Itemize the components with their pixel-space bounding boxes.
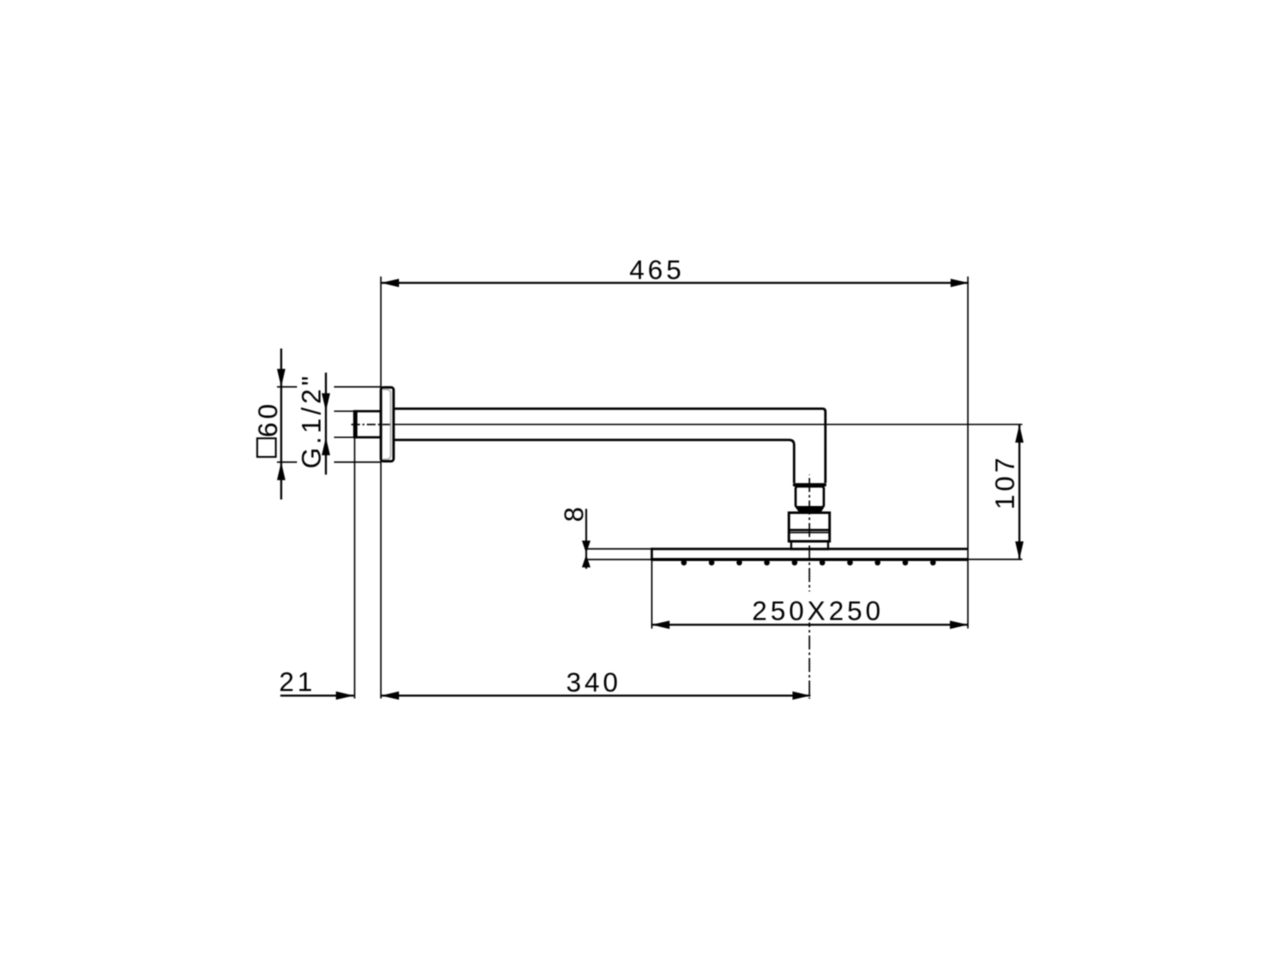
dimension 465 arrows (381, 279, 399, 287)
housing groove lines (789, 529, 830, 531)
elbow collar band (793, 483, 827, 486)
G.1/2 bottom extension line (323, 436, 354, 438)
dimension 250X250 line (652, 624, 968, 626)
svg-text:465: 465 (629, 255, 684, 285)
wall face extension line (380, 277, 382, 699)
flange highlight (383, 390, 391, 460)
shower arm outline (394, 409, 826, 483)
svg-text:G.1/2": G.1/2" (297, 373, 327, 469)
nipple thread end bar (353, 410, 357, 438)
dimension 340 line (381, 695, 811, 697)
nozzle dots (681, 560, 936, 566)
nut skirt cone (797, 507, 824, 513)
threaded nipple (355, 411, 381, 437)
arm centerline solid / 107 top extension (394, 423, 1023, 425)
arm centerline dash-dot (351, 424, 393, 426)
plate thickness extension lines (8 dim) (586, 548, 651, 550)
head vertical centerline dash-dot (808, 475, 810, 699)
sq60 top extension line (277, 386, 381, 388)
label mask G.1/2 (297, 372, 334, 469)
swivel nut (796, 487, 824, 508)
wall flange (381, 387, 394, 461)
dimension 8 line (585, 509, 587, 569)
dimension 21 line (280, 695, 354, 697)
svg-text:21: 21 (279, 667, 316, 697)
head plate (652, 549, 968, 560)
250X250 left extension line (651, 561, 653, 629)
dimension G.1/2 line (325, 373, 327, 475)
nipple-edge extension line (354, 438, 356, 699)
dimension 107 line (1018, 425, 1020, 560)
G.1/2 top extension line (323, 410, 354, 412)
dimension 465 line (381, 282, 969, 284)
dimension sq60 line (280, 349, 282, 500)
svg-text:8: 8 (559, 504, 589, 522)
107 bottom extension line (968, 558, 1022, 560)
sq60 bottom extension line (277, 461, 381, 463)
svg-text:250X250: 250X250 (752, 596, 884, 626)
label 250X250 (751, 592, 883, 623)
right extension line (head edge) (967, 277, 969, 629)
label sq60 square (257, 438, 276, 457)
lower collar (791, 541, 828, 549)
svg-text:60: 60 (253, 401, 283, 438)
svg-text:340: 340 (566, 668, 621, 698)
svg-text:107: 107 (990, 454, 1020, 509)
ball joint housing (789, 513, 830, 542)
